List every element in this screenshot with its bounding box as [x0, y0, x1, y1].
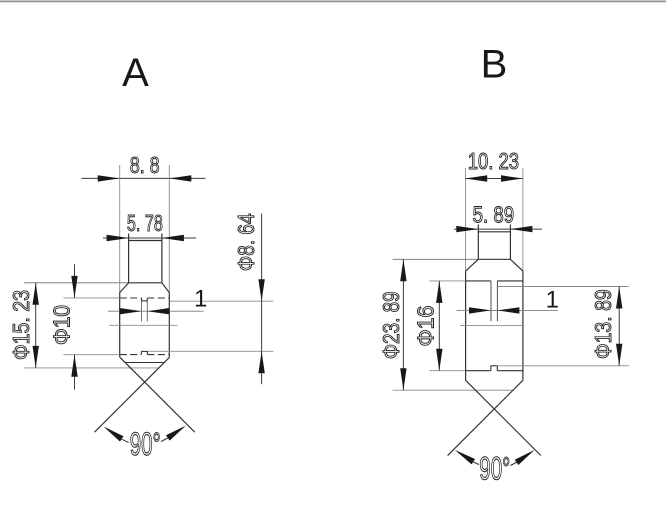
phi23.89 top extension line [393, 258, 479, 260]
svg-text:A: A [122, 51, 149, 95]
phi16 top extension line [429, 280, 465, 282]
phi15.23 bottom extension line [24, 367, 159, 369]
90 degree arrow A left [104, 427, 124, 442]
phi8.64 top arrow [258, 279, 264, 301]
top border line [0, 0, 666, 2]
90 degree arrow B left [455, 450, 475, 465]
phi23.89 top arrow [400, 259, 406, 281]
phi23.89 text [378, 291, 404, 359]
phi16 text [413, 306, 439, 347]
phi8.64 top extension line [169, 300, 273, 302]
neck A left side [128, 234, 130, 283]
phi10 top arrow [71, 276, 77, 298]
phi10 top extension line [63, 297, 119, 299]
dimension 5.78 left arrow [107, 235, 129, 241]
svg-text:Φ16: Φ16 [413, 306, 439, 347]
body B top face line right part [497, 280, 523, 282]
cone line A left [120, 357, 195, 432]
svg-text:1: 1 [546, 287, 559, 314]
dimension 1 line B [457, 309, 558, 311]
bore right line B [496, 281, 498, 321]
cone line A right [95, 357, 170, 432]
body A left side [119, 293, 121, 358]
phi15.23 bottom arrow [33, 346, 39, 368]
cone line B right [448, 380, 523, 455]
phi13.89 top extension line [497, 286, 628, 288]
svg-text:8. 8: 8. 8 [130, 152, 160, 178]
bottom notch left B [490, 366, 492, 371]
extension line body-left B [465, 168, 467, 271]
dimension 5.78 right arrow [162, 235, 184, 241]
phi16 top arrow [436, 281, 442, 303]
dimension 8.8 left arrow [98, 175, 120, 181]
phi13.89 top arrow [616, 287, 622, 309]
bore step down right A [146, 298, 148, 301]
90 degree arrow A right [166, 426, 186, 441]
neck A bottom edge [129, 282, 162, 284]
phi23.89 bottom extension line [393, 389, 513, 391]
svg-text:90°: 90° [130, 426, 161, 462]
phi8.64 bottom extension line [147, 350, 273, 352]
hidden thread line top A left part [120, 297, 142, 299]
neck B left side [477, 225, 479, 260]
chamfer A left [120, 283, 129, 293]
phi16 dimension line [438, 281, 440, 371]
dimension 1 right arrow B [497, 307, 519, 313]
dimension 10.23 right arrow [501, 175, 523, 181]
svg-text:5. 89: 5. 89 [473, 202, 515, 228]
90 degree arrow B right tail [511, 462, 518, 466]
dimension 5.89 left arrow [456, 226, 478, 232]
mid gray line B [460, 324, 524, 326]
dimension 5.89 line [454, 228, 542, 230]
dimension 5.89 right arrow [510, 226, 532, 232]
phi8.64 dimension line [261, 214, 263, 385]
phi10 dimension line bottom [74, 355, 76, 390]
svg-text:B: B [481, 43, 508, 87]
phi10 bottom arrow [71, 355, 77, 377]
bore step up right A [146, 351, 148, 354]
dimension 1 left arrow A [120, 308, 142, 314]
phi16 bottom extension line [429, 370, 465, 372]
neck A top edge [129, 240, 162, 242]
chamfer A right [162, 283, 169, 293]
svg-text:Φ13. 89: Φ13. 89 [590, 289, 616, 359]
svg-text:1: 1 [194, 286, 207, 313]
phi10 bottom extension line [63, 354, 119, 356]
chamfer B left [466, 259, 479, 271]
dimension 10.23 left arrow [465, 175, 487, 181]
bottom notch right B [496, 366, 498, 371]
svg-text:Φ10: Φ10 [49, 305, 75, 345]
phi10 dimension line top [74, 264, 76, 298]
cone line B left [466, 380, 541, 455]
phi13.89 bottom extension line [497, 365, 629, 367]
extension line body-left A [119, 165, 121, 293]
phi13.89 bottom arrow [616, 344, 622, 366]
phi16 bottom arrow [436, 349, 442, 371]
90 degree arrow A right tail [161, 438, 169, 442]
phi15.23 text [8, 290, 34, 360]
body B bottom edge right part [497, 370, 523, 372]
svg-text:Φ23. 89: Φ23. 89 [378, 291, 404, 359]
dimension 8.8 line [81, 177, 205, 179]
phi10 text [49, 305, 75, 345]
chamfer B right [510, 259, 523, 271]
bore right line A [146, 301, 148, 322]
dimension 1 left arrow B [469, 307, 491, 313]
body B right side [522, 271, 524, 380]
svg-text:10. 23: 10. 23 [468, 148, 519, 174]
hidden line bottom A left part [120, 354, 142, 356]
svg-text:Φ8. 64: Φ8. 64 [233, 213, 259, 271]
dimension 8.8 right arrow [169, 175, 191, 181]
phi15.23 top arrow [33, 283, 39, 305]
90 degree arrow A left tail [121, 439, 129, 443]
neck B right side [509, 225, 511, 260]
phi8.64 bottom arrow [258, 351, 264, 373]
dimension 5.78 line [103, 237, 196, 239]
bore step bottom A [142, 300, 148, 302]
bore left line B [490, 281, 492, 321]
neck B top edge [478, 231, 510, 233]
90 degree arrow B left tail [472, 461, 479, 464]
phi15.23 dimension line [35, 283, 37, 368]
extension line body-right B [522, 168, 524, 271]
cone face line A [125, 362, 164, 364]
bore step top A [141, 350, 147, 352]
body B bottom edge left part [466, 370, 491, 372]
phi8.64 text [233, 213, 259, 271]
dimension 1 right arrow A [147, 308, 169, 314]
bore step up left A [140, 351, 142, 354]
body B top face line left part [466, 280, 491, 282]
neck A right side [161, 234, 163, 283]
neck B bottom edge [478, 258, 510, 260]
svg-text:Φ15. 23: Φ15. 23 [8, 290, 34, 360]
extension line body-right A [168, 165, 170, 293]
body A right side [168, 293, 170, 358]
bore step down left A [141, 298, 143, 301]
bore left line A [141, 301, 143, 322]
hidden thread line top A right part [147, 297, 169, 299]
phi13.89 dimension line [618, 287, 620, 366]
svg-text:5. 78: 5. 78 [127, 210, 163, 236]
dimension 1 line A [108, 310, 204, 312]
phi15.23 top extension line [24, 282, 129, 284]
bottom notch top B [491, 365, 498, 367]
dimension 10.23 line [465, 178, 523, 180]
phi23.89 dimension line [402, 259, 404, 390]
hidden line bottom A right part [147, 354, 169, 356]
90 degree arrow B right [515, 450, 535, 465]
mid gray line A [109, 324, 178, 326]
body B left side [465, 271, 467, 380]
phi23.89 bottom arrow [400, 368, 406, 390]
svg-text:90°: 90° [479, 450, 510, 486]
phi13.89 text [590, 289, 616, 359]
